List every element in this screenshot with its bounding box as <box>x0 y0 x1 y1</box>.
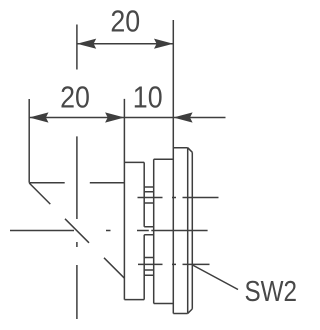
svg-text:20: 20 <box>60 80 90 115</box>
svg-text:20: 20 <box>110 4 140 39</box>
svg-text:SW2: SW2 <box>245 276 298 308</box>
svg-text:10: 10 <box>133 80 163 115</box>
